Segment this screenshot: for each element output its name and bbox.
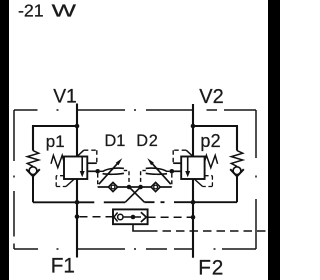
wire left bottom rail [33, 201, 125, 203]
wire F1 port line [76, 179, 78, 258]
svg-text:D2: D2 [136, 132, 158, 150]
wire right bottom rail [144, 201, 237, 203]
svg-text:F2: F2 [198, 256, 224, 279]
wire check D2 to node2 [141, 186, 151, 188]
shuttle left seat chevron [114, 213, 118, 222]
wire V2 port line [192, 104, 194, 157]
shuttle drain drop [133, 224, 149, 231]
vent bracket p1 (dashed) [56, 175, 64, 177]
wire below right check valve [236, 176, 238, 202]
svg-text:V2: V2 [199, 86, 223, 108]
p2 pilot stub upper [173, 162, 181, 164]
wire V1 port line [76, 104, 78, 157]
p1 pilot stub upper [87, 162, 97, 164]
shuttle valve body [113, 209, 148, 224]
svg-text:D1: D1 [105, 132, 126, 150]
wire check D1 to node1 [118, 186, 129, 188]
dashed bypass line down from p1 pilot node [97, 174, 99, 187]
crossing diagonal node2 to left rail [125, 187, 140, 202]
wire node1 to node2 [129, 186, 141, 188]
spring of left check valve [27, 151, 38, 167]
junction node F2 rail [191, 200, 196, 205]
p1 pilot stub lower [87, 170, 97, 172]
svg-text:W: W [52, 0, 76, 20]
junction node V2 upper [191, 124, 196, 129]
dashed pilot line to p2 [173, 149, 186, 151]
enclosure boundary, bottom edge [14, 248, 256, 250]
throttle D1 dashed pilot line [100, 170, 103, 172]
bypass check valve of D2 (diamond) [151, 182, 160, 191]
bypass check valve of D1 (diamond) [108, 182, 117, 191]
counterbalance cartridge p2 body [181, 157, 204, 180]
shuttle ball [118, 214, 123, 219]
vent diagonal p1 [66, 179, 74, 187]
ball of right check valve [233, 167, 241, 175]
dashed wire shuttle to F2 [148, 216, 191, 218]
spring of p2 [205, 155, 218, 167]
page edge black bar right [268, 0, 280, 280]
svg-text:p1: p1 [46, 132, 65, 151]
shuttle right seat chevron [141, 212, 146, 222]
svg-text:-21: -21 [18, 0, 44, 20]
page edge black bar left [0, 0, 9, 280]
junction node F1 rail [75, 200, 80, 205]
wire branch to right check valve [193, 126, 237, 151]
junction node p1 pilot [95, 169, 100, 174]
seat of right check valve [230, 169, 244, 176]
junction node shuttle right on F2 line [191, 215, 196, 220]
wire to bypass check D1 [98, 186, 109, 188]
wire F2 port line [192, 179, 194, 258]
shuttle inner wire [123, 216, 141, 218]
svg-text:V1: V1 [53, 87, 77, 108]
flow arrow in p1 [81, 157, 83, 172]
seat of left check valve [26, 169, 40, 176]
p2 pilot stub lower [172, 170, 181, 172]
dashed bypass line down from p2 pilot node [171, 174, 173, 187]
adjustable throttle D1 [103, 168, 124, 171]
dashed pilot line to p1 [84, 149, 97, 151]
junction node p2 pilot [170, 169, 175, 174]
adjustable throttle D2 [146, 168, 167, 171]
wire branch to left check valve [33, 126, 77, 151]
spring of p1 [51, 155, 64, 167]
junction node1 [127, 185, 132, 190]
junction node shuttle center [131, 215, 136, 220]
dashed drain line to page edge [149, 230, 267, 232]
pilot tap diagonal at V2 port [186, 150, 193, 156]
enclosure boundary, right edge [255, 110, 257, 249]
vent bracket p2 (dashed) [205, 175, 213, 177]
wire to bypass check D2 [160, 186, 172, 188]
counterbalance cartridge p1 body [64, 157, 87, 180]
flow arrow in p2 [187, 157, 189, 172]
junction node shuttle left on F1 line [75, 214, 80, 219]
throttle D2 dashed pilot line [167, 170, 170, 172]
spring of right check valve [231, 151, 242, 167]
pilot tap diagonal at V1 port [77, 150, 84, 156]
dashed wire F1 to shuttle valve [80, 216, 114, 218]
ball of left check valve [29, 167, 37, 175]
junction node V1 upper [75, 124, 80, 129]
wire below left check valve [32, 176, 34, 202]
enclosure boundary, left edge [13, 110, 15, 249]
enclosure boundary (dash-dot), top edge [14, 109, 256, 111]
junction node2 [138, 185, 143, 190]
crossing diagonal node1 to right rail [129, 187, 144, 202]
svg-text:F1: F1 [51, 255, 75, 278]
svg-text:p2: p2 [200, 131, 220, 151]
vent diagonal p2 [194, 179, 202, 187]
